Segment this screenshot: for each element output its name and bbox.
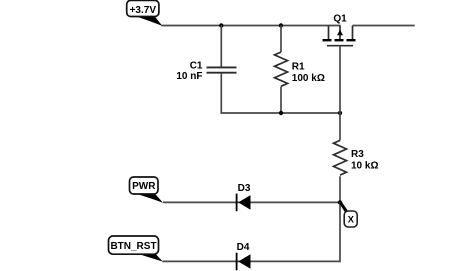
- diode D3: [237, 183, 251, 211]
- channel bars: [323, 39, 332, 41]
- svg-text:X: X: [348, 214, 355, 224]
- net flag PWR: [130, 177, 164, 203]
- svg-text:D4: D4: [237, 242, 250, 253]
- svg-text:100 kΩ: 100 kΩ: [292, 73, 325, 84]
- svg-text:+3.7V: +3.7V: [130, 5, 157, 16]
- node dot R1 bottom: [279, 111, 283, 115]
- wire top rail left: [162, 25, 341, 27]
- resistor R3: [334, 113, 379, 203]
- svg-text:C1: C1: [190, 60, 203, 71]
- net flag +3.7V: [127, 0, 163, 26]
- gate wire: [339, 46, 341, 113]
- body lead with arrow: [339, 26, 341, 40]
- resistor R1: [275, 26, 325, 114]
- node dot R1 top: [279, 23, 283, 27]
- svg-text:Q1: Q1: [333, 14, 347, 25]
- source lead: [328, 26, 330, 40]
- node dot X junction: [338, 200, 342, 204]
- gate line: [327, 45, 353, 47]
- svg-text:PWR: PWR: [132, 181, 156, 192]
- node dot C1 top: [219, 23, 223, 27]
- svg-text:D3: D3: [238, 183, 251, 194]
- node X label: [339, 202, 357, 227]
- drain lead: [352, 26, 354, 40]
- transistor Q1 (P-MOSFET): [323, 14, 356, 114]
- wire top rail right: [353, 25, 415, 27]
- wire X junction down to D4 rail: [163, 202, 341, 261]
- wire PWR to node X: [163, 201, 340, 203]
- node dot gate net: [338, 111, 342, 115]
- wire bottom rail (C1/R1 bottoms to gate net): [281, 112, 340, 114]
- net flag BTN_RST: [109, 236, 163, 262]
- svg-text:BTN_RST: BTN_RST: [110, 241, 156, 252]
- svg-text:10 nF: 10 nF: [176, 71, 202, 82]
- capacitor C1: [176, 26, 281, 114]
- diode D4: [237, 242, 251, 270]
- svg-text:R1: R1: [292, 61, 305, 72]
- svg-text:R3: R3: [351, 149, 364, 160]
- svg-text:10 kΩ: 10 kΩ: [351, 161, 378, 172]
